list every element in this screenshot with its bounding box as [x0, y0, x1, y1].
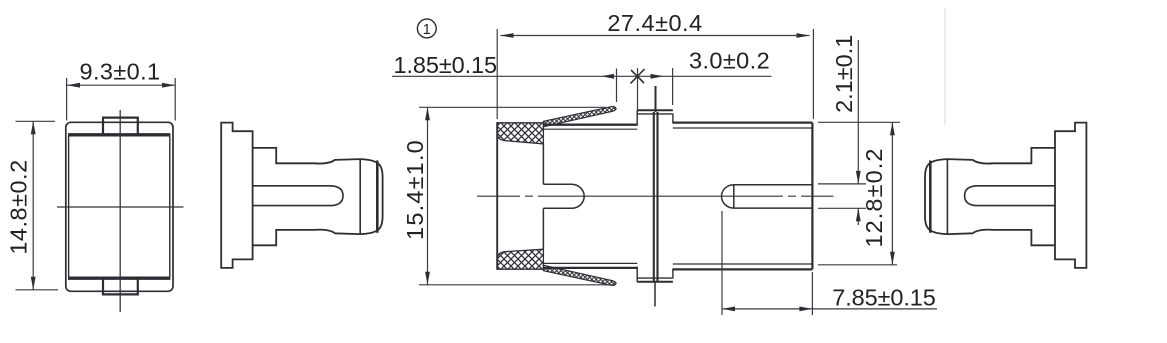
faint scan artifact line	[944, 8, 946, 125]
svg-text:14.8±0.2: 14.8±0.2	[6, 159, 32, 254]
dimension 15.4±1.0 line	[427, 107, 429, 284]
side view nose front line	[359, 159, 361, 234]
section boss left side bottom	[636, 267, 638, 283]
oblique tick at 637	[631, 69, 645, 84]
section bottom latch arm	[543, 265, 616, 285]
side view slot (mirrored)	[965, 186, 1055, 206]
dimension 7.85±0.15 line	[722, 308, 937, 310]
dimension 27.4±0.4 arrows	[501, 33, 810, 38]
front view outer body	[66, 122, 173, 291]
section top wall left outer line	[543, 124, 637, 126]
side view slot	[253, 186, 343, 206]
svg-text:3.0±0.2: 3.0±0.2	[689, 48, 770, 74]
section right edge	[811, 123, 813, 270]
dimension 15.4±1.0 extension lines	[419, 107, 616, 284]
front view vertical centerline	[119, 110, 121, 312]
dimension 2.1±0.1 line upper	[857, 40, 859, 184]
dimension 15.4±1.0 arrows	[425, 107, 430, 284]
front view inner side lines	[69, 136, 170, 277]
side view body profile (mirrored)	[925, 148, 1055, 245]
section bottom wall right outer line	[673, 268, 813, 270]
flange bar top stub	[655, 86, 657, 112]
dimension 7.85±0.15 arrows	[722, 307, 812, 312]
front view top tab	[103, 118, 138, 136]
flange bar left line	[653, 112, 655, 283]
section top wall right outer line	[673, 121, 813, 123]
dimension 14.8±0.2 arrows	[31, 121, 36, 289]
dimension 14.8±0.2 line	[32, 121, 34, 289]
dimension 14.8±0.2 extension lines	[16, 121, 59, 289]
svg-text:1.85±0.15: 1.85±0.15	[394, 52, 498, 78]
flange bar right line	[656, 112, 658, 283]
side view nose front line (mirrored)	[946, 159, 948, 234]
sleeve tube end cap arc	[722, 185, 734, 208]
section left wall	[496, 122, 498, 269]
section top boss inner line	[637, 113, 673, 115]
section top hatched block	[497, 123, 543, 144]
svg-text:12.8±0.2: 12.8±0.2	[861, 147, 887, 247]
sleeve tube end chord	[733, 185, 735, 208]
front view bottom tab	[103, 277, 138, 294]
section boss left side top	[636, 110, 638, 126]
dimension 1.85 / 3.0 shared line	[392, 75, 772, 77]
front view horizontal centerline	[57, 206, 184, 208]
dimension 12.8±0.2 extension lines	[818, 122, 900, 264]
section boss right step bottom	[672, 269, 674, 279]
section bottom boss outer line	[637, 281, 673, 283]
sleeve tube top line	[734, 184, 813, 186]
side view nose ring line	[376, 161, 379, 233]
dimension 9.3±0.1 arrows	[67, 83, 175, 88]
section boss right step top	[672, 114, 674, 124]
front view bottom thick edge	[68, 277, 170, 280]
dimension 12.8±0.2 arrows	[890, 122, 895, 264]
dimension 12.8±0.2 line	[891, 122, 893, 264]
inner wall below key tab	[542, 208, 544, 249]
circled item number 1	[417, 19, 436, 38]
dimension 1.85 extension line	[616, 69, 618, 103]
section bottom boss inner line	[637, 277, 673, 279]
main horizontal centerline	[477, 195, 834, 197]
front view top thick edge	[68, 133, 170, 136]
dimension 2.1±0.1 extension lines	[818, 184, 866, 208]
dimension 3.0 extension line right	[672, 68, 674, 105]
svg-text:7.85±0.15: 7.85±0.15	[832, 284, 936, 310]
flange bar bottom stub	[654, 283, 656, 307]
dimension 9.3±0.1 extension lines	[67, 78, 176, 121]
inner wall above key tab	[542, 144, 544, 184]
side view body profile	[253, 148, 383, 245]
sleeve tube bottom line	[734, 207, 813, 209]
section top boss outer line	[637, 109, 673, 111]
section bottom wall left outer line	[543, 267, 637, 269]
svg-text:9.3±0.1: 9.3±0.1	[79, 59, 160, 85]
dimension arrow pointing left at 601	[601, 74, 614, 79]
dimension 7.85±0.15 extension lines	[722, 211, 812, 315]
side view flange outline	[221, 123, 252, 268]
key tab with rounded end	[543, 184, 584, 208]
section top latch arm	[543, 107, 616, 127]
svg-text:27.4±0.4: 27.4±0.4	[607, 10, 702, 36]
side view flange outline (mirrored)	[1055, 123, 1086, 268]
dimension 27.4±0.4 line	[501, 35, 810, 37]
svg-text:15.4±1.0: 15.4±1.0	[402, 139, 428, 240]
dimension arrow pointing right at 663	[651, 74, 664, 79]
dimension 3.0 extension line left	[637, 68, 639, 112]
dimension 27.4±0.4 extension lines	[497, 29, 813, 119]
dimension 2.1±0.1 line lower	[857, 208, 859, 225]
section bottom wall right inner line	[673, 263, 813, 265]
section bottom wall left inner line	[543, 262, 637, 264]
dimension 2.1±0.1 arrows	[856, 171, 861, 221]
section bottom hatched block	[497, 249, 543, 269]
svg-text:2.1±0.1: 2.1±0.1	[831, 35, 857, 113]
section top wall left inner line	[543, 128, 637, 130]
dimension 9.3±0.1 line	[67, 84, 175, 86]
side view nose ring line (mirrored)	[929, 161, 932, 233]
section top wall right inner line	[673, 127, 813, 129]
svg-text:1: 1	[423, 22, 431, 38]
